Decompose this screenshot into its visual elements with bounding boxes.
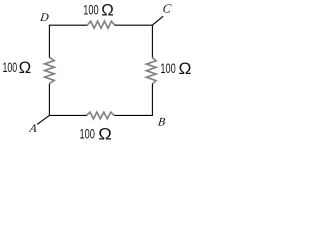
- resistor R1 100 Ω (top): [87, 21, 115, 28]
- wire A up to R4 (left lower vertical): [48, 84, 50, 116]
- wire C down to R2 (right upper vertical): [151, 25, 153, 58]
- resistor R3 100 Ω (bottom): [87, 112, 115, 119]
- node A lead (diagonal stub): [37, 115, 49, 124]
- value label 100 Ω (left): [3, 58, 32, 77]
- wire R1 to C (top-right horizontal): [115, 24, 153, 26]
- wire R4 to D (left upper vertical): [48, 25, 50, 58]
- wire R2 to B (right lower vertical): [151, 84, 153, 116]
- wire D to R1 (top-left horizontal): [49, 24, 87, 26]
- resistor R4 100 Ω (left): [45, 57, 55, 83]
- svg-text:100: 100: [83, 3, 99, 18]
- value label 100 Ω (bottom): [80, 125, 112, 144]
- svg-text:Ω: Ω: [98, 125, 112, 142]
- node C lead (diagonal stub): [152, 16, 163, 25]
- svg-text:Ω: Ω: [101, 1, 114, 20]
- svg-text:Ω: Ω: [179, 59, 192, 78]
- value label 100 Ω (top): [83, 1, 114, 20]
- wire R3 to A (bottom-left horizontal): [49, 114, 86, 116]
- svg-text:100: 100: [160, 61, 176, 76]
- value label 100 Ω (right): [160, 59, 191, 78]
- svg-text:Ω: Ω: [19, 58, 32, 77]
- svg-text:100: 100: [80, 127, 96, 141]
- resistor R2 100 Ω (right): [146, 58, 156, 84]
- wire B to R3 (bottom-right horizontal): [114, 114, 152, 116]
- svg-text:100: 100: [3, 60, 18, 75]
